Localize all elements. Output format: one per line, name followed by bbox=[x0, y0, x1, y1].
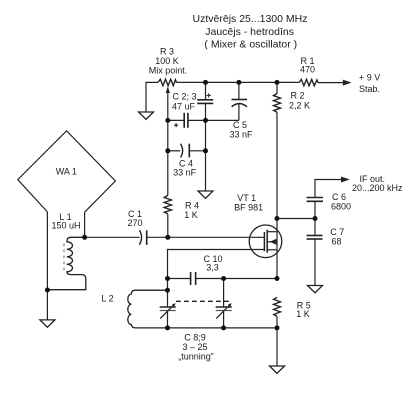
node drain bbox=[275, 216, 280, 221]
node C6-C7 bbox=[313, 216, 318, 221]
wire to +9V arrow bbox=[318, 82, 343, 84]
source lead bbox=[267, 249, 277, 251]
ground (R5) bbox=[270, 366, 285, 373]
wire drain column bbox=[276, 219, 278, 279]
svg-text:C 6: C 6 bbox=[332, 192, 346, 202]
svg-text:C 8;9: C 8;9 bbox=[184, 333, 206, 343]
wire IF out bbox=[315, 180, 341, 198]
svg-text:WA 1: WA 1 bbox=[56, 166, 77, 176]
svg-text:L 2: L 2 bbox=[101, 294, 113, 304]
svg-text:1 K: 1 K bbox=[296, 309, 310, 319]
wire wiper down bbox=[167, 92, 169, 196]
svg-text:Stab.: Stab. bbox=[359, 84, 380, 94]
svg-text:470: 470 bbox=[300, 65, 315, 75]
node R4-gate1 bbox=[165, 235, 170, 240]
node C2-left bbox=[165, 118, 170, 123]
inductor L2 bbox=[128, 290, 168, 328]
node C10-left bbox=[165, 276, 170, 281]
wire top rail left lead bbox=[146, 82, 158, 112]
inductor L1 bbox=[47, 237, 85, 289]
resistor R3 bbox=[158, 79, 177, 85]
wire R5 bottom to ground bbox=[276, 317, 278, 367]
ground (R3 left) bbox=[139, 112, 154, 119]
node L2-top bbox=[165, 288, 170, 293]
capacitor C6 bbox=[307, 197, 324, 199]
svg-text:( Mixer & oscillator ): ( Mixer & oscillator ) bbox=[204, 39, 297, 51]
svg-text:150 uH: 150 uH bbox=[51, 221, 80, 231]
svg-text:3,3: 3,3 bbox=[206, 263, 219, 273]
svg-text:C 2; 3: C 2; 3 bbox=[172, 91, 196, 101]
node source bbox=[275, 276, 280, 281]
node tank-bot-left bbox=[165, 325, 170, 330]
node tank-bot-C9 bbox=[221, 325, 226, 330]
svg-text:100 K: 100 K bbox=[155, 56, 179, 66]
varicap C9 bbox=[216, 306, 232, 308]
resistor R1 bbox=[299, 79, 318, 85]
svg-text:6800: 6800 bbox=[331, 201, 351, 211]
wire antenna ground drop bbox=[46, 290, 48, 320]
svg-text:33 nF: 33 nF bbox=[229, 130, 253, 140]
capacitor C5 bbox=[238, 82, 240, 99]
capacitor C7 bbox=[307, 235, 323, 237]
antenna WA1 bbox=[18, 131, 116, 212]
svg-text:68: 68 bbox=[331, 237, 341, 247]
svg-text:20...200 kHz: 20...200 kHz bbox=[352, 183, 403, 193]
gate bar bbox=[263, 232, 265, 251]
resistor R5 bbox=[274, 297, 281, 316]
svg-text:Jaucējs - hetrodīns: Jaucējs - hetrodīns bbox=[205, 26, 294, 38]
capacitor C4 bbox=[168, 150, 180, 152]
capacitor C10 bbox=[168, 278, 191, 280]
svg-text:47 uF: 47 uF bbox=[172, 101, 196, 111]
node tank-bot-R5 bbox=[275, 325, 280, 330]
svg-text:33 nF: 33 nF bbox=[173, 168, 197, 178]
node rail-C5 bbox=[236, 80, 241, 85]
capacitor C2 bbox=[168, 119, 184, 121]
R3 wiper arrow bbox=[166, 86, 170, 93]
ground (C4/C3 column) bbox=[198, 191, 213, 198]
varicap C8 bbox=[160, 306, 176, 308]
svg-text:Mix point.: Mix point. bbox=[149, 66, 188, 76]
svg-text:BF 981: BF 981 bbox=[234, 203, 263, 213]
node rail-R2 bbox=[275, 80, 280, 85]
svg-text:„tunning”: „tunning” bbox=[178, 352, 214, 362]
svg-text:1 K: 1 K bbox=[184, 210, 198, 220]
node C4-right bbox=[203, 148, 208, 153]
wire gate1 row bbox=[85, 236, 140, 238]
svg-text:270: 270 bbox=[127, 218, 142, 228]
ground (antenna) bbox=[40, 320, 55, 327]
svg-text:3 – 25: 3 – 25 bbox=[182, 342, 207, 352]
node C4-left bbox=[165, 148, 170, 153]
node rail-C3 bbox=[203, 80, 208, 85]
drain lead bbox=[267, 231, 277, 233]
substrate lead with arrow bbox=[267, 241, 277, 243]
capacitor C1 bbox=[139, 230, 141, 245]
gang dashed line bbox=[176, 300, 232, 302]
node C2-right bbox=[203, 118, 208, 123]
wire gate2 row bbox=[168, 250, 265, 308]
svg-text:R 3: R 3 bbox=[160, 47, 174, 57]
svg-text:Uztvērējs 25...1300 MHz: Uztvērējs 25...1300 MHz bbox=[193, 13, 308, 25]
svg-text:C 5: C 5 bbox=[233, 120, 247, 130]
wire drain row to C6 bbox=[277, 218, 315, 220]
ground (C7) bbox=[308, 286, 323, 293]
resistor R4 bbox=[164, 195, 171, 214]
capacitor C3 bbox=[205, 82, 207, 99]
svg-text:+ 9 V: + 9 V bbox=[359, 73, 380, 83]
node C10-right bbox=[221, 276, 226, 281]
resistor R2 bbox=[276, 82, 278, 93]
node dots bbox=[45, 80, 318, 331]
wire C3 column down bbox=[205, 120, 207, 191]
node L1-top bbox=[82, 235, 87, 240]
transistor VT1 bbox=[249, 225, 282, 258]
title bbox=[193, 13, 308, 51]
wire tank bottom row bbox=[168, 327, 278, 329]
svg-text:R 2: R 2 bbox=[290, 91, 304, 101]
svg-text:2,2 K: 2,2 K bbox=[289, 100, 310, 110]
node ant-gnd bbox=[45, 288, 50, 293]
svg-text:VT 1: VT 1 bbox=[237, 193, 256, 203]
wire top rail bbox=[177, 81, 300, 83]
channel bbox=[266, 230, 268, 253]
